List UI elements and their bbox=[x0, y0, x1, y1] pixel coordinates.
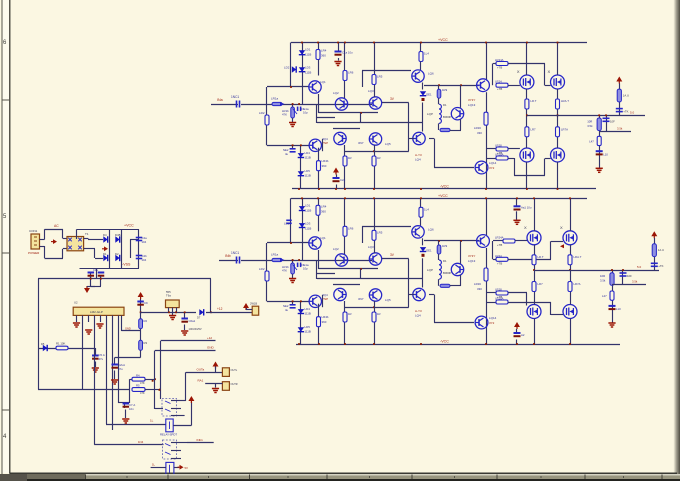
svg-text:555: 555 bbox=[166, 290, 171, 294]
svg-text:3Y3Y: 3Y3Y bbox=[468, 98, 475, 102]
svg-text:B060P: B060P bbox=[443, 271, 452, 275]
svg-text:10n: 10n bbox=[129, 407, 134, 411]
svg-text:4u: 4u bbox=[285, 308, 289, 312]
svg-text:5.0: 5.0 bbox=[637, 265, 642, 269]
svg-text:LR4b: LR4b bbox=[322, 315, 329, 319]
svg-text:111B: 111B bbox=[305, 53, 311, 57]
svg-text:111B: 111B bbox=[305, 208, 311, 212]
svg-text:AC: AC bbox=[54, 224, 59, 228]
svg-text:A-Y3: A-Y3 bbox=[415, 309, 422, 313]
svg-text:LD5: LD5 bbox=[305, 325, 311, 329]
svg-text:D5: D5 bbox=[41, 342, 45, 346]
svg-text:LQ6: LQ6 bbox=[428, 72, 434, 76]
svg-text:LR28: LR28 bbox=[495, 144, 502, 148]
svg-text:360: 360 bbox=[321, 54, 326, 58]
svg-text:OUTR: OUTR bbox=[231, 383, 238, 386]
svg-text:1L: 1L bbox=[152, 463, 156, 467]
svg-text:L10: L10 bbox=[616, 307, 621, 311]
svg-text:LQ4: LQ4 bbox=[415, 314, 421, 318]
svg-text:X: X bbox=[560, 225, 563, 230]
svg-text:1A.U: 1A.U bbox=[658, 248, 664, 252]
svg-text:LD3: LD3 bbox=[305, 221, 311, 225]
svg-text:T6a: T6a bbox=[166, 294, 171, 298]
svg-text:47K: 47K bbox=[282, 113, 287, 117]
svg-text:LR7A: LR7A bbox=[574, 282, 581, 286]
svg-text:LR24: LR24 bbox=[495, 254, 502, 258]
svg-text:GE1: GE1 bbox=[426, 248, 432, 252]
svg-text:1R: 1R bbox=[377, 156, 381, 160]
svg-text:D4B: D4B bbox=[115, 233, 121, 237]
svg-text:3Y2: 3Y2 bbox=[489, 166, 495, 170]
svg-text:R1 10K: R1 10K bbox=[56, 342, 65, 346]
svg-text:D7: D7 bbox=[197, 316, 201, 320]
svg-text:LQ2: LQ2 bbox=[333, 247, 339, 251]
svg-text:LR28A: LR28A bbox=[495, 153, 504, 157]
svg-text:LQ3: LQ3 bbox=[368, 245, 374, 249]
svg-text:LR4: LR4 bbox=[321, 204, 327, 208]
svg-text:INb1: INb1 bbox=[197, 438, 204, 442]
svg-text:LQ13: LQ13 bbox=[468, 259, 476, 263]
svg-text:2W1B: 2W1B bbox=[250, 302, 257, 306]
svg-text:C2a: C2a bbox=[340, 178, 346, 182]
svg-text:LQ4: LQ4 bbox=[415, 158, 421, 162]
svg-text:1L4: 1L4 bbox=[424, 52, 429, 56]
svg-text:47K: 47K bbox=[140, 381, 145, 385]
svg-text:LQ14: LQ14 bbox=[489, 161, 497, 165]
svg-text:10p: 10p bbox=[303, 267, 308, 271]
svg-text:LR5: LR5 bbox=[377, 230, 383, 234]
svg-text:D2: D2 bbox=[115, 252, 119, 256]
svg-text:+TB: +TB bbox=[497, 243, 502, 247]
svg-text:1A.U: 1A.U bbox=[623, 93, 629, 97]
svg-text:104: 104 bbox=[142, 258, 147, 262]
svg-text:X: X bbox=[548, 69, 551, 74]
svg-text:L47: L47 bbox=[602, 294, 607, 298]
svg-text:LR4b: LR4b bbox=[322, 159, 329, 163]
svg-text:5.0: 5.0 bbox=[630, 110, 635, 114]
svg-text:LR24A: LR24A bbox=[495, 236, 504, 240]
svg-text:LD1: LD1 bbox=[305, 48, 311, 52]
svg-text:LR16: LR16 bbox=[474, 126, 481, 130]
svg-text:111B: 111B bbox=[305, 312, 311, 316]
svg-text:LR1a: LR1a bbox=[271, 253, 279, 257]
svg-text:4u: 4u bbox=[285, 152, 289, 156]
svg-text:1R: 1R bbox=[348, 312, 352, 316]
svg-text:47u: 47u bbox=[118, 367, 123, 371]
svg-text:LQ5: LQ5 bbox=[385, 142, 391, 146]
svg-text:360: 360 bbox=[322, 164, 327, 168]
svg-text:LD2: LD2 bbox=[284, 221, 290, 225]
svg-text:3N7: 3N7 bbox=[358, 297, 364, 301]
svg-text:LD4: LD4 bbox=[305, 307, 311, 311]
svg-text:-VCC: -VCC bbox=[440, 340, 449, 344]
svg-text:D1: D1 bbox=[443, 103, 447, 107]
svg-text:3Y2: 3Y2 bbox=[489, 321, 495, 325]
svg-text:LD4: LD4 bbox=[305, 151, 311, 155]
svg-text:+TK: +TK bbox=[658, 264, 663, 268]
svg-text:A2: A2 bbox=[521, 333, 525, 337]
svg-text:10R: 10R bbox=[600, 274, 605, 278]
svg-text:10R: 10R bbox=[587, 119, 592, 123]
svg-text:10F: 10F bbox=[610, 119, 615, 123]
svg-text:LQ6: LQ6 bbox=[428, 227, 434, 231]
svg-text:Aa1 10u: Aa1 10u bbox=[521, 205, 532, 209]
svg-text:111B: 111B bbox=[305, 71, 311, 75]
svg-text:360: 360 bbox=[322, 320, 327, 324]
svg-text:-VSS: -VSS bbox=[122, 263, 131, 267]
svg-text:GND: GND bbox=[125, 327, 131, 331]
svg-text:3.5k: 3.5k bbox=[587, 124, 593, 128]
svg-text:X: X bbox=[524, 225, 527, 230]
svg-text:LR24: LR24 bbox=[495, 80, 502, 84]
svg-text:+TK: +TK bbox=[623, 109, 628, 113]
svg-text:LR1a: LR1a bbox=[271, 97, 279, 101]
svg-text:LQP: LQP bbox=[427, 268, 433, 272]
svg-text:GND: GND bbox=[207, 346, 215, 350]
svg-text:LR.T: LR.T bbox=[530, 99, 536, 103]
svg-text:+VCC: +VCC bbox=[438, 194, 448, 198]
svg-text:1R9: 1R9 bbox=[442, 244, 448, 248]
svg-text:+12: +12 bbox=[217, 307, 223, 311]
svg-text:L10: L10 bbox=[603, 152, 608, 156]
svg-text:LR5: LR5 bbox=[377, 75, 383, 79]
svg-text:LR24A: LR24A bbox=[495, 58, 504, 62]
svg-text:111B: 111B bbox=[305, 156, 311, 160]
svg-text:330: 330 bbox=[477, 131, 482, 135]
svg-text:5V: 5V bbox=[185, 466, 189, 470]
svg-text:10F: 10F bbox=[627, 274, 632, 278]
svg-text:U2: U2 bbox=[74, 301, 78, 305]
svg-text:3N7: 3N7 bbox=[358, 141, 364, 145]
svg-text:3Y3Y: 3Y3Y bbox=[468, 254, 475, 258]
svg-text:3.5k: 3.5k bbox=[600, 279, 606, 283]
svg-text:LR28A: LR28A bbox=[495, 297, 504, 301]
svg-text:1NC1: 1NC1 bbox=[231, 95, 239, 99]
svg-text:C3a: C3a bbox=[93, 268, 98, 272]
svg-text:LD1: LD1 bbox=[305, 203, 311, 207]
svg-text:+VCC: +VCC bbox=[438, 38, 448, 42]
svg-text:T1: T1 bbox=[85, 232, 89, 236]
svg-text:1R: 1R bbox=[348, 156, 352, 160]
svg-text:10p: 10p bbox=[303, 111, 308, 115]
svg-text:+TB: +TB bbox=[497, 261, 502, 265]
svg-text:LR7: LR7 bbox=[530, 127, 536, 131]
svg-text:104: 104 bbox=[142, 240, 147, 244]
svg-text:+TB: +TB bbox=[497, 66, 502, 70]
svg-text:LRA.T: LRA.T bbox=[574, 255, 582, 259]
svg-text:LQ1: LQ1 bbox=[320, 236, 326, 240]
svg-text:LR28: LR28 bbox=[495, 288, 502, 292]
svg-text:111B: 111B bbox=[305, 174, 311, 178]
svg-text:LD5: LD5 bbox=[305, 169, 311, 173]
svg-text:LR2: LR2 bbox=[259, 111, 265, 115]
svg-text:LQ5: LQ5 bbox=[385, 298, 391, 302]
svg-text:+12: +12 bbox=[207, 336, 212, 340]
svg-text:330: 330 bbox=[477, 287, 482, 291]
svg-text:RELAY-SPDT: RELAY-SPDT bbox=[160, 433, 177, 437]
svg-text:1L4: 1L4 bbox=[424, 207, 429, 211]
svg-text:D1: D1 bbox=[103, 252, 107, 256]
svg-text:B060P: B060P bbox=[443, 115, 452, 119]
svg-text:1R: 1R bbox=[377, 312, 381, 316]
svg-text:LR4: LR4 bbox=[321, 49, 327, 53]
svg-text:C1a 10u: C1a 10u bbox=[342, 51, 353, 55]
svg-text:POWER: POWER bbox=[28, 251, 40, 255]
svg-text:111B: 111B bbox=[305, 226, 311, 230]
svg-text:LQ3: LQ3 bbox=[368, 89, 374, 93]
svg-text:RA1: RA1 bbox=[198, 379, 204, 383]
svg-text:LR7A: LR7A bbox=[561, 127, 568, 131]
svg-text:C6a1: C6a1 bbox=[189, 319, 196, 323]
svg-text:LR2: LR2 bbox=[259, 267, 265, 271]
svg-text:R3: R3 bbox=[144, 341, 148, 345]
svg-text:L47: L47 bbox=[589, 139, 594, 143]
svg-text:1L: 1L bbox=[150, 419, 154, 423]
svg-text:LQ14: LQ14 bbox=[489, 316, 497, 320]
svg-text:LQ1: LQ1 bbox=[320, 80, 326, 84]
svg-text:100UF/25V: 100UF/25V bbox=[189, 327, 202, 331]
svg-text:LR.T: LR.T bbox=[538, 255, 544, 259]
svg-text:LR6: LR6 bbox=[348, 226, 354, 230]
svg-text:INb: INb bbox=[225, 254, 231, 258]
svg-text:GE1: GE1 bbox=[426, 93, 432, 97]
svg-text:+TB: +TB bbox=[497, 87, 502, 91]
svg-text:LQ13: LQ13 bbox=[468, 103, 476, 107]
svg-text:+VCC: +VCC bbox=[124, 224, 134, 228]
svg-text:LD3: LD3 bbox=[305, 66, 311, 70]
svg-text:C9: C9 bbox=[144, 301, 148, 305]
svg-text:47K: 47K bbox=[140, 391, 145, 395]
svg-text:OUTL: OUTL bbox=[231, 369, 238, 372]
svg-text:1R9: 1R9 bbox=[442, 88, 448, 92]
svg-text:LR7: LR7 bbox=[538, 282, 544, 286]
svg-text:CON1: CON1 bbox=[29, 229, 38, 233]
svg-text:LD2: LD2 bbox=[284, 66, 290, 70]
svg-text:47u: 47u bbox=[99, 357, 104, 361]
svg-text:47K: 47K bbox=[282, 269, 287, 273]
svg-text:LM2-GLP: LM2-GLP bbox=[90, 310, 103, 314]
svg-text:LR16: LR16 bbox=[474, 282, 481, 286]
svg-text:3.5k: 3.5k bbox=[632, 280, 638, 284]
svg-text:LRA.T: LRA.T bbox=[561, 99, 569, 103]
svg-text:LQP: LQP bbox=[427, 112, 433, 116]
svg-text:OUTa: OUTa bbox=[197, 368, 205, 372]
svg-text:360: 360 bbox=[321, 209, 326, 213]
svg-text:-VCC: -VCC bbox=[440, 185, 449, 189]
svg-text:1NC1: 1NC1 bbox=[231, 251, 239, 255]
svg-text:X: X bbox=[517, 69, 520, 74]
svg-text:LQ2: LQ2 bbox=[333, 91, 339, 95]
svg-text:3.5k: 3.5k bbox=[617, 126, 623, 130]
svg-text:A-Y3: A-Y3 bbox=[415, 153, 422, 157]
svg-text:LR6: LR6 bbox=[348, 71, 354, 75]
svg-text:D1: D1 bbox=[443, 259, 447, 263]
svg-text:111B: 111B bbox=[305, 330, 311, 334]
svg-text:INa: INa bbox=[217, 98, 223, 102]
svg-text:R2: R2 bbox=[144, 319, 148, 323]
svg-text:R4: R4 bbox=[136, 374, 140, 378]
svg-text:1N4: 1N4 bbox=[138, 440, 144, 444]
svg-text:D4: D4 bbox=[103, 233, 107, 237]
